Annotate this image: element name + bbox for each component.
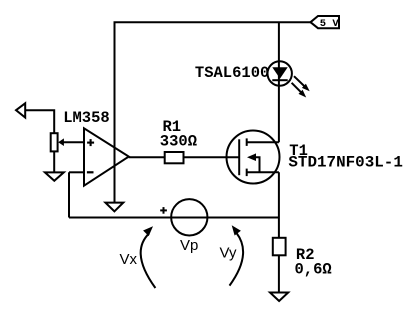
- wire R2 bottom to ground: [278, 255, 280, 292]
- LED emission arrow 2: [292, 83, 307, 98]
- svg-text:0,6Ω: 0,6Ω: [295, 260, 332, 278]
- svg-text:330Ω: 330Ω: [160, 133, 197, 151]
- wire op-amp output to R1: [129, 156, 165, 158]
- LED cathode bar: [272, 79, 287, 81]
- wire supply vertical to op-amp: [114, 22, 116, 202]
- potentiometer P1: [51, 133, 58, 151]
- svg-text:Vx: Vx: [120, 251, 138, 268]
- resistor R1: [165, 152, 184, 163]
- wire top rail: [114, 21, 311, 23]
- svg-text:Vy: Vy: [220, 244, 237, 261]
- ground under op-amp: [105, 203, 123, 212]
- LED D1 circle: [268, 61, 292, 85]
- wire R1 to gate: [184, 156, 240, 158]
- svg-text:Vp: Vp: [180, 237, 198, 254]
- wire source horizontal: [247, 171, 279, 173]
- Vx curved arrow: [141, 226, 156, 288]
- op-amp plus input mark: [87, 139, 94, 146]
- op-amp minus input mark: [87, 171, 94, 173]
- LED emission arrow 1: [294, 76, 310, 91]
- potentiometer wiper arrow: [58, 138, 64, 146]
- LED triangle: [272, 67, 287, 78]
- transistor T1 MOSFET body circle: [227, 131, 280, 184]
- wire feedback vertical: [68, 172, 70, 217]
- source Vp circle: [171, 199, 207, 235]
- svg-text:TSAL6100: TSAL6100: [195, 64, 269, 82]
- svg-text:5 V: 5 V: [320, 18, 340, 30]
- T1 channel top stub: [246, 138, 248, 146]
- wire inverting input stub: [69, 171, 84, 173]
- input terminal arrow: [16, 103, 25, 117]
- wire bottom rail: [69, 217, 279, 219]
- op-amp U1 triangle: [84, 128, 129, 185]
- wire pot bottom to ground: [53, 151, 55, 172]
- wire source vertical to R2: [278, 172, 280, 238]
- T1 body arrow: [247, 153, 256, 161]
- 5V supply flag: [311, 16, 340, 28]
- wire non-inverting input stub: [63, 141, 84, 143]
- ground under potentiometer: [45, 172, 64, 180]
- T1 gate bar: [238, 139, 240, 175]
- T1 body wire: [256, 157, 260, 172]
- T1 channel bottom stub: [246, 169, 248, 177]
- wire drain horizontal: [247, 141, 279, 143]
- ground under R2: [270, 293, 288, 302]
- wire input arrow to pot: [25, 110, 54, 133]
- resistor R2: [273, 238, 286, 256]
- svg-text:LM358: LM358: [63, 109, 110, 127]
- wire LED/drain vertical: [278, 22, 280, 142]
- Vy curved arrow: [230, 225, 244, 285]
- Vp plus mark: [160, 207, 167, 214]
- svg-text:STD17NF03L-1: STD17NF03L-1: [288, 154, 403, 172]
